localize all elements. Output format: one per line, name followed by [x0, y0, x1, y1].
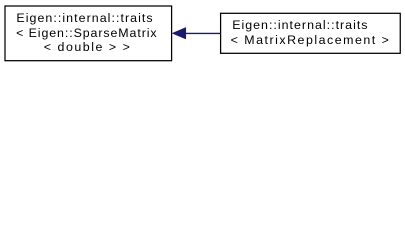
- inheritance arrow shaft: [185, 32, 221, 34]
- inheritance arrow head: [172, 28, 186, 40]
- svg-text:< MatrixReplacement >: < MatrixReplacement >: [231, 33, 389, 47]
- svg-text:< Eigen::SparseMatrix: < Eigen::SparseMatrix: [16, 26, 157, 40]
- svg-text:Eigen::internal::traits: Eigen::internal::traits: [16, 11, 152, 25]
- svg-text:Eigen::internal::traits: Eigen::internal::traits: [232, 18, 367, 32]
- svg-text:< double > >: < double > >: [44, 40, 130, 54]
- node box: Eigen::internal::traits< Eigen::SparseMatrix< double > >: [5, 6, 172, 61]
- node box: Eigen::internal::traits< MatrixReplacement >: [221, 13, 401, 53]
